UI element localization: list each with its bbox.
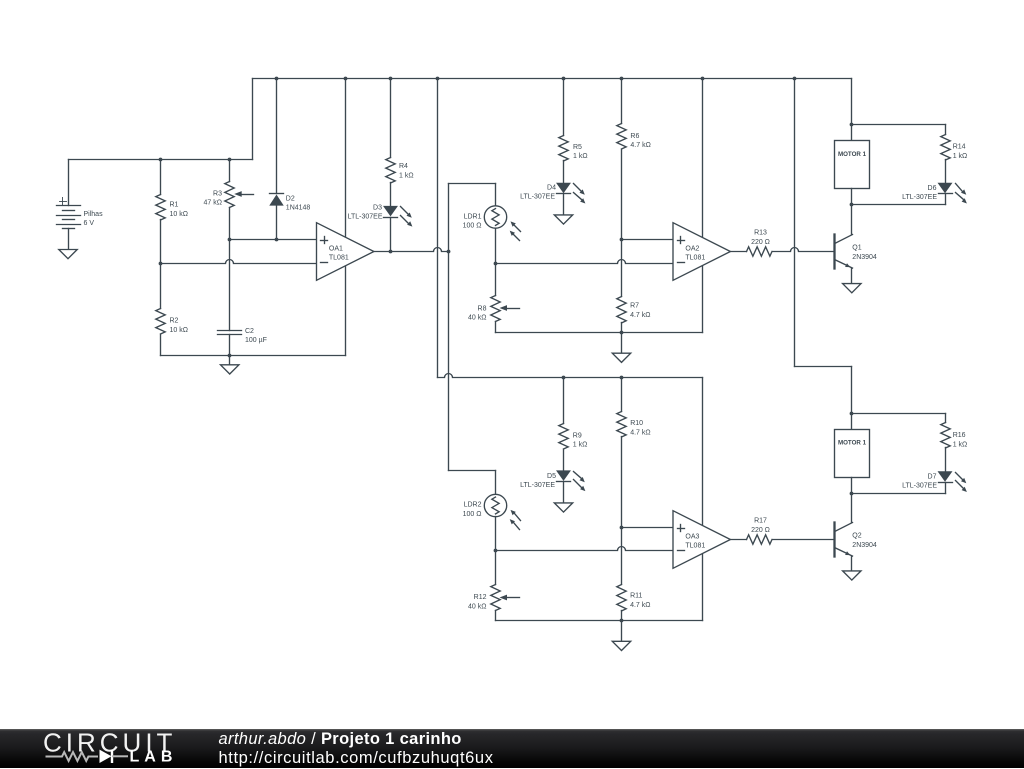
wire riser x253	[252, 79, 254, 160]
wire OA2 V- pin stub	[702, 266, 704, 333]
op-amp OA3 TL081	[673, 511, 730, 569]
wire R5 to D4	[563, 161, 565, 184]
motor M1 MOTOR 1	[835, 141, 870, 189]
LED D4 LTL-307EE	[520, 183, 585, 203]
svg-text:TL081: TL081	[329, 255, 349, 262]
junction motor1 / D6 return	[850, 203, 854, 207]
svg-text:100 µF: 100 µF	[245, 337, 267, 344]
svg-text:R17: R17	[754, 518, 767, 525]
wire R14 feed	[852, 125, 946, 135]
wire R2 bottom lead	[160, 335, 162, 356]
svg-text:D4: D4	[547, 184, 556, 191]
junction R7 / rail y332	[620, 331, 624, 335]
diode D2 1N4148	[270, 194, 311, 212]
resistor R16	[941, 423, 967, 449]
svg-text:10 kΩ: 10 kΩ	[170, 211, 188, 218]
junction motor1 / R14 tap	[850, 123, 854, 127]
wire LDR2 bottom lead	[495, 517, 497, 551]
svg-text:Q1: Q1	[852, 245, 861, 252]
svg-text:LTL-307EE: LTL-307EE	[902, 194, 937, 201]
wire R12 top lead	[495, 551, 497, 585]
junction top rail / R4	[389, 77, 393, 81]
wire OA1 inverting rail y263	[161, 260, 317, 264]
photoresistor LDR2 100	[463, 494, 521, 529]
svg-text:Pilhas: Pilhas	[84, 211, 104, 218]
svg-text:220 Ω: 220 Ω	[751, 527, 770, 534]
svg-text:R8: R8	[478, 305, 487, 312]
junction top rail / R5	[562, 77, 566, 81]
junction top rail / D2	[275, 77, 279, 81]
junction R3 / plus rail	[228, 238, 232, 242]
wire OA1 V- pin stub	[345, 266, 347, 356]
wire R13 to Q1 base	[773, 248, 835, 252]
wire R11 bottom lead	[621, 611, 623, 621]
wire R9 to D5	[563, 450, 565, 471]
svg-text:LDR2: LDR2	[464, 502, 482, 509]
wire R4 to D3	[390, 183, 392, 207]
resistor R9	[559, 424, 588, 450]
svg-text:Q2: Q2	[852, 533, 861, 540]
junction top rail / OA1 V+	[344, 77, 348, 81]
svg-text:D6: D6	[928, 185, 937, 192]
wire motor2 bottom lead	[851, 478, 853, 494]
wire D5 ground stem	[563, 482, 565, 503]
potentiometer R12	[468, 585, 519, 611]
svg-text:R13: R13	[754, 230, 767, 237]
capacitor C2 100uF	[218, 328, 267, 344]
wire OA3 output lead	[731, 539, 747, 541]
svg-text:1 kΩ: 1 kΩ	[953, 153, 968, 160]
junction battery rail / R3	[228, 158, 232, 162]
wire R3 bottom to plus node	[229, 208, 231, 240]
svg-text:R16: R16	[953, 432, 966, 439]
potentiometer R3	[204, 182, 254, 208]
svg-text:40 kΩ: 40 kΩ	[468, 315, 486, 322]
wire R16 feed	[852, 414, 946, 423]
wire OA3 inverting rail y551	[496, 547, 674, 551]
resistor R6	[617, 124, 651, 150]
svg-text:TL081: TL081	[685, 255, 705, 262]
wire D2 top lead	[276, 79, 278, 194]
caption text	[219, 730, 494, 767]
wire Q2 emitter lead	[851, 557, 853, 571]
wire R1 top lead	[160, 160, 162, 195]
wire R12 bottom lead	[495, 611, 497, 621]
wire R17 to Q2 base	[773, 539, 835, 541]
svg-text:10 kΩ: 10 kΩ	[170, 327, 188, 334]
wire D3 bottom lead	[390, 218, 392, 252]
wire top rail V+ y78	[253, 78, 852, 80]
wire R3 node down to C2	[229, 240, 231, 331]
wire OA3 V+ pin stub	[702, 378, 704, 526]
wire D4 ground stem	[563, 194, 565, 215]
junction motor2 / D7 return	[850, 492, 854, 496]
svg-text:OA1: OA1	[329, 245, 343, 252]
svg-text:R12: R12	[474, 594, 487, 601]
wire LDR1 bottom lead	[495, 229, 497, 264]
svg-text:R14: R14	[953, 144, 966, 151]
wire Q2 collector lead	[851, 494, 853, 523]
svg-text:MOTOR 1: MOTOR 1	[838, 151, 867, 158]
junction top rail / OA2 V+	[701, 77, 705, 81]
resistor R4	[386, 158, 414, 184]
svg-text:R10: R10	[630, 420, 643, 427]
wire lower rail y377.5	[438, 374, 703, 378]
wire R8 bottom lead	[495, 322, 497, 333]
junction R10 / OA3+ rail	[620, 526, 624, 530]
battery Pilhas 6V	[57, 160, 104, 229]
junction lower rail / R10	[620, 376, 624, 380]
wire x437 V+ drop	[437, 79, 439, 378]
wire LDR riser x448.5	[448, 184, 450, 471]
svg-text:R6: R6	[630, 133, 639, 140]
ground C2	[221, 365, 239, 374]
resistor R2	[156, 309, 188, 335]
motor M2 MOTOR 1	[835, 430, 870, 478]
junction R1/R2/OA1- node	[159, 262, 163, 266]
resistor R10	[617, 412, 651, 438]
potentiometer R8	[468, 296, 519, 322]
svg-text:1 kΩ: 1 kΩ	[573, 153, 588, 160]
svg-text:R9: R9	[573, 432, 582, 439]
junction LDR2 / OA3- node	[494, 549, 498, 553]
wire to LDR1 top	[449, 184, 496, 206]
svg-text:R5: R5	[573, 144, 582, 151]
ground D5	[554, 503, 572, 512]
wire OA2 feedback rail y332	[496, 332, 703, 334]
wire R2 top lead	[160, 264, 162, 309]
transistor Q2 2N3904	[835, 523, 877, 557]
wire x794 V+ drop	[795, 79, 852, 430]
wire R5 top lead	[563, 79, 565, 136]
svg-text:OA3: OA3	[685, 533, 699, 540]
ground D4	[554, 215, 572, 224]
wire D2 bottom lead	[276, 206, 278, 240]
svg-text:D2: D2	[286, 195, 295, 202]
wire R9 top lead	[563, 378, 565, 424]
wire R16 to D7	[945, 448, 947, 472]
wire R11 ground stem	[621, 621, 623, 642]
wire Q1 collector lead	[851, 205, 853, 235]
wire OA3 feedback rail y620.5	[496, 620, 703, 622]
junction D2 / plus rail	[275, 238, 279, 242]
svg-text:1N4148: 1N4148	[286, 205, 311, 212]
transistor Q1 2N3904	[835, 235, 877, 269]
svg-text:LTL-307EE: LTL-307EE	[902, 483, 937, 490]
footer bar	[0, 729, 1024, 768]
wire to LDR2 top	[449, 471, 496, 495]
resistor R17 220	[747, 518, 773, 545]
wire Q1 emitter lead	[851, 269, 853, 284]
wire OA2 output lead	[731, 251, 747, 253]
svg-text:100 Ω: 100 Ω	[463, 511, 482, 518]
wire OA1 V+ pin stub	[345, 79, 347, 238]
svg-text:D5: D5	[547, 473, 556, 480]
CircuitLab logo	[0, 729, 200, 769]
junction LDR1 / OA2- node	[494, 262, 498, 266]
svg-text:D3: D3	[373, 204, 382, 211]
LED D3 LTL-307EE	[348, 204, 413, 226]
wire OA2 V+ pin stub	[702, 79, 704, 238]
wire motor1 bottom lead	[851, 189, 853, 205]
wire OA3 non-inverting rail	[622, 527, 674, 529]
wire R10 top lead	[621, 378, 623, 412]
svg-text:4.7 kΩ: 4.7 kΩ	[630, 429, 650, 436]
wire D6 return	[852, 194, 946, 205]
junction top rail / x437 drop	[436, 77, 440, 81]
ground battery	[59, 250, 77, 259]
junction top rail / x794 drop	[793, 77, 797, 81]
svg-text:220 Ω: 220 Ω	[751, 239, 770, 246]
wire R14 to D6	[945, 160, 947, 184]
resistor R7	[617, 297, 651, 323]
resistor R11	[617, 585, 651, 612]
LED D5 LTL-307EE	[520, 471, 585, 491]
svg-text:6 V: 6 V	[84, 220, 95, 227]
junction top rail / R6	[620, 77, 624, 81]
junction motor2 / R16 tap	[850, 412, 854, 416]
ground Q1	[843, 284, 861, 293]
ground Q2	[843, 571, 861, 580]
svg-text:LAB: LAB	[130, 749, 178, 766]
svg-text:LTL-307EE: LTL-307EE	[520, 194, 555, 201]
svg-text:1 kΩ: 1 kΩ	[953, 441, 968, 448]
wire OA2 inverting rail y263	[496, 260, 674, 264]
ground R7	[612, 353, 630, 362]
svg-text:R7: R7	[630, 303, 639, 310]
wire D7 return	[852, 483, 946, 494]
LED D6 LTL-307EE	[902, 183, 967, 203]
junction lower rail / R9	[562, 376, 566, 380]
svg-text:D7: D7	[928, 473, 937, 480]
wire OA2 non-inverting rail	[622, 239, 674, 241]
svg-text:4.7 kΩ: 4.7 kΩ	[630, 602, 650, 609]
svg-text:R11: R11	[630, 593, 642, 600]
svg-text:40 kΩ: 40 kΩ	[468, 603, 486, 610]
ground R11	[612, 641, 630, 650]
junction D3 / OA1 out	[389, 250, 393, 254]
junction battery rail / R1	[159, 158, 163, 162]
svg-text:LTL-307EE: LTL-307EE	[520, 482, 555, 489]
svg-text:LTL-307EE: LTL-307EE	[348, 214, 383, 221]
svg-text:R4: R4	[399, 163, 408, 170]
battery negative lead wire	[68, 229, 70, 250]
wire OA1 ground rail y355	[161, 355, 346, 357]
LED D7 LTL-307EE	[902, 472, 967, 492]
photoresistor LDR1 100	[463, 206, 521, 241]
resistor R14	[941, 135, 967, 161]
junction R6 / OA2+ rail	[620, 238, 624, 242]
wire C2 bottom lead	[229, 335, 231, 356]
svg-text:TL081: TL081	[685, 543, 705, 550]
svg-text:47 kΩ: 47 kΩ	[204, 200, 222, 207]
wire C2 ground stem	[229, 356, 231, 365]
svg-text:OA2: OA2	[685, 245, 699, 252]
wire R8 top lead	[495, 264, 497, 296]
svg-text:C2: C2	[245, 328, 254, 335]
svg-text:2N3904: 2N3904	[852, 254, 877, 261]
op-amp OA1 TL081	[317, 223, 374, 281]
resistor R5	[559, 136, 588, 162]
junction OA1 out / LDR riser	[447, 250, 451, 254]
svg-text:1 kΩ: 1 kΩ	[573, 442, 588, 449]
svg-text:LDR1: LDR1	[464, 213, 482, 220]
junction C2 / ground rail	[228, 354, 232, 358]
svg-text:4.7 kΩ: 4.7 kΩ	[630, 312, 650, 319]
wire R4 top lead	[390, 79, 392, 158]
wire OA1 non-inverting rail y239.5	[230, 239, 317, 241]
svg-text:MOTOR 1: MOTOR 1	[838, 440, 867, 447]
resistor R1	[156, 195, 188, 221]
wire R6 top lead	[621, 79, 623, 124]
junction R11 / rail y620.5	[620, 619, 624, 623]
wire OA1 output rail y251.5	[374, 248, 450, 252]
wire R10 bottom to plus node	[621, 437, 623, 585]
svg-text:100 Ω: 100 Ω	[463, 223, 482, 230]
svg-text:R2: R2	[170, 318, 179, 325]
wire R7 ground stem	[621, 333, 623, 354]
svg-text:R1: R1	[170, 202, 179, 209]
wire battery rail y159	[69, 159, 253, 161]
svg-text:2N3904: 2N3904	[852, 542, 877, 549]
wire R7 bottom lead	[621, 323, 623, 333]
op-amp OA2 TL081	[673, 223, 730, 281]
wire motor1 top lead	[851, 79, 853, 141]
wire R3 top lead	[229, 160, 231, 182]
wire OA3 V- pin stub	[702, 554, 704, 621]
svg-text:4.7 kΩ: 4.7 kΩ	[630, 142, 650, 149]
wire R1 bottom to minus node	[160, 220, 162, 264]
svg-text:R3: R3	[213, 190, 222, 197]
resistor R13 220	[747, 230, 773, 257]
wire R6 bottom to plus node	[621, 150, 623, 297]
svg-text:1 kΩ: 1 kΩ	[399, 172, 414, 179]
